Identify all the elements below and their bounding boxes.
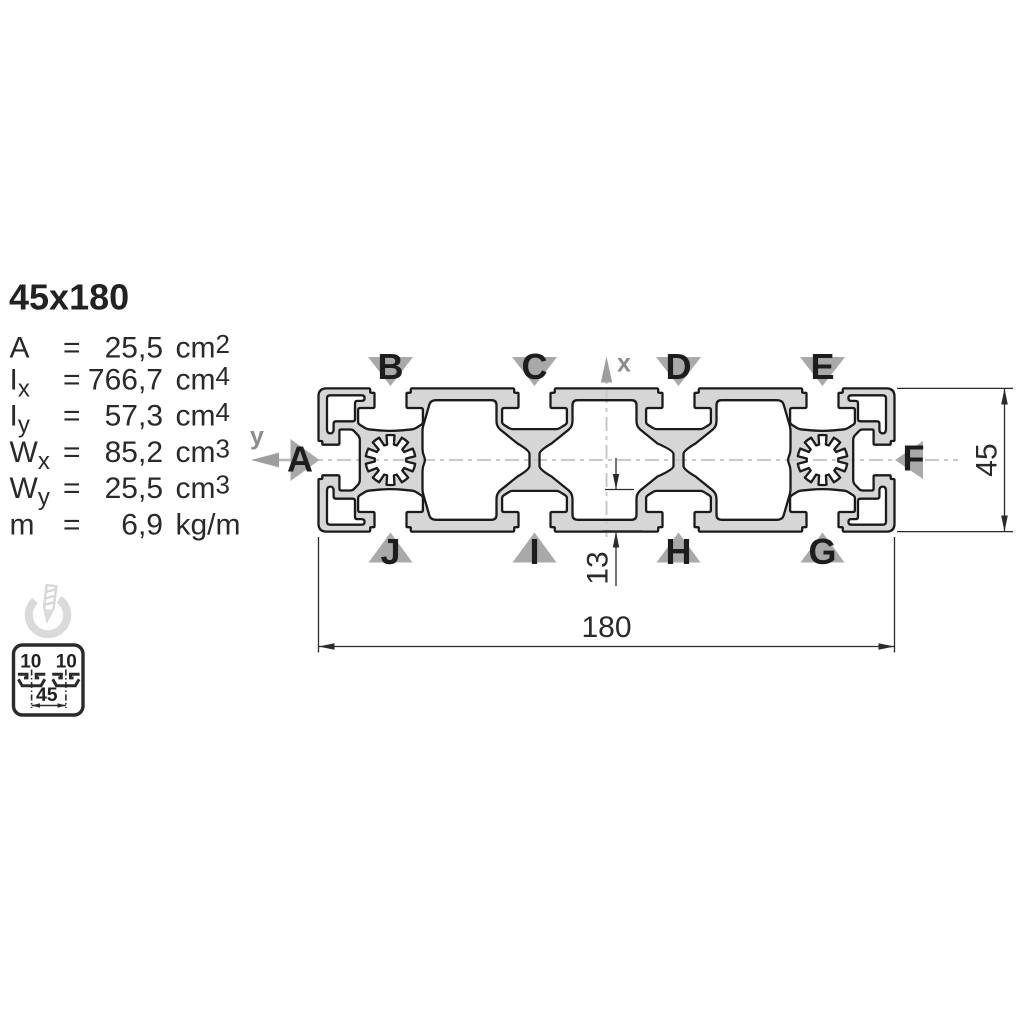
- svg-text:10: 10: [20, 652, 41, 673]
- slot marker D (top): [656, 346, 701, 387]
- vertical centerline (x axis): [606, 361, 608, 537]
- svg-text:E: E: [810, 346, 834, 387]
- slot marker C (top): [512, 346, 557, 387]
- svg-text:x: x: [617, 350, 631, 378]
- slot marker H (bottom): [657, 531, 701, 572]
- svg-text:180: 180: [581, 611, 631, 644]
- svg-text:45x180: 45x180: [9, 277, 129, 318]
- slot marker B (top): [368, 346, 413, 387]
- slot marker E (top): [800, 346, 845, 387]
- svg-text:6,9kg/m: 6,9kg/m: [121, 509, 240, 542]
- y axis arrow with label: [250, 423, 293, 468]
- svg-text:I: I: [529, 531, 539, 572]
- svg-text:13: 13: [582, 551, 615, 584]
- svg-text:y: y: [250, 423, 264, 451]
- svg-text:45: 45: [971, 443, 1004, 476]
- svg-text:C: C: [522, 346, 548, 387]
- slot marker F (right end): [895, 438, 925, 480]
- dimension 13: [602, 458, 643, 586]
- svg-text:J: J: [380, 531, 400, 572]
- profile cross-section 45x180 fill: [319, 388, 895, 531]
- svg-text:F: F: [903, 438, 925, 479]
- svg-text:45: 45: [36, 684, 58, 706]
- horizontal centerline (y axis): [253, 459, 958, 461]
- x axis arrow with label: [601, 350, 631, 383]
- svg-text:10: 10: [56, 652, 77, 673]
- slot marker I (bottom): [513, 531, 557, 572]
- dimension 45 (right): [897, 388, 1013, 531]
- screw insertion watermark icon: [29, 585, 67, 634]
- slot marker G (bottom): [801, 531, 845, 572]
- dimension 180 (bottom): [319, 537, 895, 653]
- slot marker J (bottom): [369, 531, 413, 572]
- profile cross-section outline: [319, 388, 895, 531]
- slot size icon (10/10/45): [14, 645, 84, 715]
- svg-text:766,7cm4: 766,7cm4: [88, 361, 230, 397]
- svg-text:A: A: [287, 439, 313, 480]
- slot marker A (left end): [287, 439, 320, 482]
- svg-text:H: H: [666, 531, 692, 572]
- svg-text:B: B: [378, 346, 404, 387]
- svg-text:G: G: [808, 531, 836, 572]
- svg-text:D: D: [666, 346, 692, 387]
